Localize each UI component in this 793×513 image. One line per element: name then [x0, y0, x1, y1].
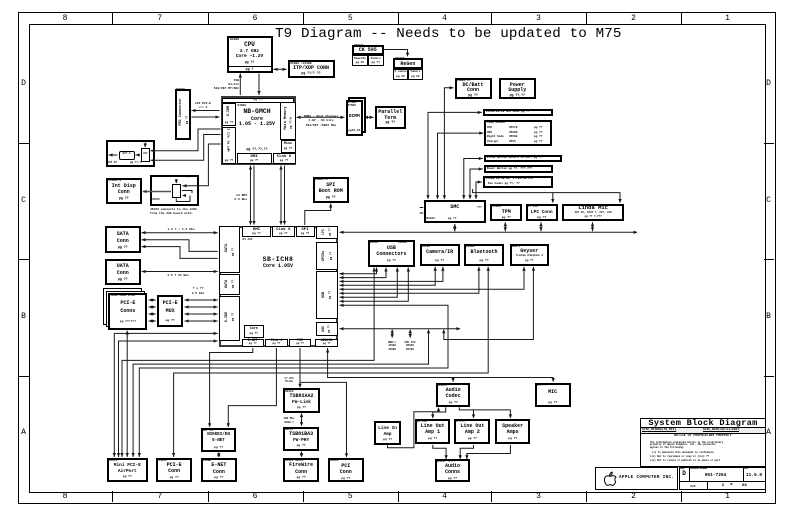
SB UATA pg — [231, 280, 234, 288]
SB title — [248, 256, 308, 263]
ReGen U3400 box — [393, 58, 423, 69]
SB USB sub-box — [316, 271, 338, 320]
Fan conns line1 — [486, 177, 533, 180]
U7550 button text — [487, 156, 542, 159]
CPU U4400 box — [227, 36, 273, 73]
Codec pg — [436, 401, 470, 404]
ReGen refdes — [395, 58, 404, 61]
bundle wire USBconn to AirPort 3 — [122, 268, 374, 458]
SB LPC text — [322, 229, 326, 235]
SB SATA pg — [231, 248, 234, 256]
NB PCI-E sub-box — [222, 127, 236, 164]
wire SB SATA0 to SATA Conn — [142, 232, 218, 234]
PCI-E Conns back box 1 — [106, 291, 145, 328]
USB pin wire 1 to USB Connectors — [340, 268, 377, 274]
ReGen tuners text — [408, 70, 423, 73]
PCI-E Conns front box — [108, 293, 147, 330]
SB-ICH8 U4600 outer box — [219, 226, 339, 347]
USBconn pg — [368, 259, 416, 262]
U7550 button box — [484, 155, 562, 163]
Line In Amp box — [374, 421, 401, 445]
DIMM title — [346, 114, 364, 119]
IntDisp line1 — [106, 184, 142, 190]
PEG wire label — [192, 102, 214, 110]
TSB82AA2 FW-Link box — [283, 388, 320, 412]
SB GPIOs pg — [329, 251, 332, 259]
SB UATA sub-box — [219, 274, 241, 296]
NB Misc sub-box — [281, 140, 296, 153]
DIMM refdes2 — [348, 104, 356, 107]
Temp row2c — [534, 131, 542, 134]
PowerSupply line1 — [499, 83, 536, 89]
USBconn line2 — [368, 252, 416, 258]
ENETconn pg — [201, 476, 237, 479]
NB title — [231, 108, 283, 115]
CK505 tuners text — [368, 57, 384, 60]
CK505 refdes — [354, 45, 363, 48]
USBconn TL refdes — [370, 241, 378, 244]
AudioConns pg — [435, 477, 471, 480]
PEG pg — [185, 116, 188, 124]
SMC right label — [477, 207, 482, 210]
CPU bottom pg — [227, 68, 272, 72]
SB AHD sub-box — [316, 322, 338, 336]
NIKKEI E-NET PHY box — [201, 428, 237, 452]
FireWire Conn box — [283, 458, 319, 482]
Camera pg — [420, 259, 460, 262]
SMC left stub 2 — [420, 212, 424, 214]
ENETconn refdes — [203, 459, 211, 462]
Power button text — [487, 167, 532, 170]
CK505 Tuners sub-box — [368, 55, 384, 66]
SPIROM line1 — [313, 183, 350, 189]
IntDisp pg — [106, 197, 142, 201]
LPCconn pg — [526, 216, 558, 219]
TSB82 line1 — [283, 394, 320, 400]
SATAconn refdes — [107, 227, 126, 230]
TSB82 line2 — [283, 400, 320, 405]
LVDS chip loop wire — [176, 196, 190, 202]
Line Out Amp 1 box — [415, 419, 451, 445]
USBconn line1 — [368, 246, 416, 252]
wire CPU to ITP/XDP — [274, 68, 287, 70]
USB pin wire 2 to USB Connectors — [340, 268, 387, 278]
wire PEG to NB — [192, 116, 220, 118]
RGB chip label — [119, 153, 135, 156]
SB AZALIA text — [315, 339, 338, 343]
Temp row3b — [509, 135, 517, 138]
IntDisp line2 — [106, 190, 142, 196]
wire SB SATA2 to SATA Conn — [142, 247, 218, 259]
S400 label — [280, 417, 298, 425]
NB DMI sub-box — [237, 153, 272, 164]
wire RGB chip2 to chip1 — [136, 154, 141, 156]
Camera refdes — [422, 245, 430, 248]
SB ENET pg — [242, 343, 264, 346]
MIC pg — [535, 401, 571, 404]
LVDS TL label — [152, 176, 171, 179]
Fan Conns box — [483, 176, 553, 188]
NB CLnk0 text — [273, 155, 296, 160]
MIC box — [535, 383, 571, 407]
Codec line1 — [436, 388, 470, 394]
wire NB CLnk to SB CLnk b — [284, 166, 286, 225]
CPU speed — [227, 49, 272, 54]
LVDS TR label — [186, 176, 194, 179]
apple computer inc text — [619, 476, 674, 481]
ReGen conns sub-box — [393, 69, 408, 81]
bundle wire USBpin9 to AirPort 6 — [139, 305, 448, 457]
wire SMC to DC/Batt — [444, 88, 453, 199]
NB MainMemory vertical text — [283, 106, 287, 129]
sheet label — [709, 481, 713, 483]
SATAconn line1 — [105, 232, 141, 238]
PCIeConn2 pg — [156, 476, 192, 479]
wire NB to RGB lower — [151, 135, 221, 161]
KBD stub on AHD bus — [391, 330, 393, 338]
wire Amp1 to Audio Conns — [433, 445, 446, 459]
wire CPU to NB FSB up — [239, 74, 241, 96]
Linda title — [562, 205, 624, 211]
wire SB Clnk1 down to NIKKEI — [228, 348, 276, 427]
SB S-IDE pg — [231, 313, 234, 321]
SB Clnk1 pg — [265, 343, 287, 346]
wire CPU to NB FSB down — [258, 74, 260, 96]
SB Core pg — [244, 332, 264, 335]
PCIeConn2 line1 — [156, 463, 192, 469]
Camera title — [420, 250, 460, 256]
wire NB to PEG — [192, 110, 220, 112]
TPM title — [490, 210, 522, 216]
SB LPC sub-box — [316, 226, 338, 239]
Spk pg — [495, 437, 530, 440]
FSB label — [205, 79, 239, 92]
wire SMC to Fan conns — [476, 182, 482, 199]
Amp2 pg — [454, 437, 490, 440]
audio bus drop to MIC — [552, 378, 554, 382]
title block heading — [641, 419, 765, 429]
size value D — [680, 471, 688, 478]
SB PCI sub-box — [289, 339, 311, 347]
SPI Boot ROM U3800 box — [313, 177, 350, 203]
SB USB pg — [328, 291, 331, 299]
TPM refdes — [492, 205, 500, 208]
notice item2 — [650, 456, 709, 459]
NIKKEI line1 — [201, 433, 237, 438]
rev label — [744, 468, 749, 470]
title block sysc row — [641, 427, 765, 434]
sysc right — [703, 428, 739, 431]
notice item1 — [652, 452, 714, 455]
ITP title — [288, 66, 335, 72]
NB B-IDM sub-box — [222, 103, 236, 127]
Linda pg — [562, 216, 624, 219]
Geyser sub — [510, 255, 549, 258]
USB pin wire 5 to Geyser — [340, 267, 525, 290]
Linda sub — [562, 212, 624, 215]
PCIeConn2 refdes — [158, 459, 166, 462]
NIKKEI pg — [201, 446, 237, 449]
PCIeConns refdes — [111, 295, 135, 298]
wire SB PCI down to TSB82AA2 — [299, 348, 301, 387]
Temp row2b — [509, 131, 517, 134]
wire Conns-MUX 3 — [149, 313, 156, 315]
CPU title — [227, 42, 272, 49]
NB B-IDM vertical text — [227, 106, 231, 117]
SB DMI text — [242, 228, 272, 233]
notice item3 — [650, 460, 720, 463]
Temp row4 — [487, 140, 499, 143]
PCI Conn box — [328, 458, 364, 482]
of label — [730, 484, 733, 487]
NB core — [231, 117, 283, 123]
RGB TL label — [108, 141, 120, 144]
FWconn line1 — [283, 463, 319, 469]
Temp row2 — [487, 131, 492, 134]
Int Disp Conn J5100 box — [106, 178, 142, 204]
Temp row4b — [509, 140, 516, 143]
SB DMI pg — [242, 232, 272, 235]
NB CLnk0 sub-box — [273, 153, 296, 164]
wire NB CLnk to SB CLnk a — [280, 166, 282, 225]
ITP refdes — [290, 62, 312, 65]
RGB chip2 label — [141, 153, 150, 156]
AirPort line2 — [107, 469, 148, 474]
CK505 title — [352, 48, 384, 54]
NB Main Memory sub-box — [280, 102, 296, 140]
Linda Mic to LPC bus — [592, 222, 594, 231]
NB PCIE label1 — [227, 128, 230, 137]
wire NB to RGB upper — [151, 129, 221, 151]
CK 505 U3300 box — [352, 45, 384, 56]
wire NB DMI to SB DMI b — [253, 166, 255, 225]
scale label — [680, 481, 686, 483]
wire Speaker Amps to Audio Conns — [467, 445, 511, 459]
FRC label — [402, 341, 418, 352]
ReGen tuners pg — [408, 75, 423, 78]
Mini PCI-E AirPort box — [107, 458, 148, 483]
LPC bus wire — [340, 231, 638, 233]
SPIROM refdes — [315, 178, 328, 181]
wire codec branch to Speaker Amps — [474, 410, 511, 418]
Amp1 line2 — [415, 430, 451, 436]
USB pin wire 8 to USB Connectors — [340, 268, 409, 302]
ReGen title — [393, 62, 423, 68]
bundle wire AHDbus to AirPort 5 — [133, 330, 428, 457]
wire NB DMI to SB DMI a — [250, 166, 252, 225]
ENETconn line2 — [201, 470, 237, 476]
UATA wire label — [160, 274, 196, 277]
Bluetooth U4100 box — [464, 244, 504, 267]
Temp row4c — [534, 140, 542, 143]
LineIn line1 — [374, 426, 401, 431]
CK505 poweron text — [352, 57, 368, 60]
SMC refdes — [427, 217, 435, 220]
wire Conns-MUX 1 — [149, 299, 156, 301]
wire SMC to Power button — [470, 169, 483, 199]
UATAconn line2 — [105, 271, 141, 277]
Spk line1 — [495, 424, 530, 430]
Codec line2 — [436, 394, 470, 400]
Amp1 pg — [415, 437, 451, 440]
wire NIKKEI to E-NET Conn — [218, 453, 220, 457]
CPU pg — [227, 61, 272, 65]
wire MUX-SB 1 — [185, 299, 218, 301]
AudioConns line2 — [435, 470, 471, 476]
PCI-E MUX box — [157, 295, 184, 327]
Temp row1c — [534, 126, 542, 129]
TSB81 refdes — [285, 428, 293, 431]
SB GPIOs text — [321, 250, 325, 261]
ENETconn line1 — [201, 463, 237, 469]
SB SATA sub-box — [219, 226, 241, 273]
SB PCI pg — [289, 343, 311, 346]
USB pin wire 3 to Camera/IR — [340, 267, 443, 282]
UATAconn pg — [105, 278, 141, 282]
wire Conns-MUX 2 — [149, 306, 156, 308]
LPC Conn to LPC bus — [540, 222, 542, 231]
bundle wire SB to AirPort 1 — [114, 333, 217, 457]
BT pg — [464, 259, 504, 262]
NB top strip pg — [222, 98, 294, 101]
wire Line In Amp to codec — [388, 408, 439, 448]
TPM to LPC bus — [504, 222, 506, 231]
NB top pg strip — [222, 98, 294, 103]
Temp row1b — [509, 126, 517, 129]
UATAconn refdes — [107, 260, 115, 263]
wire SMC to ALS — [428, 112, 482, 198]
BT refdes — [466, 245, 474, 248]
SATAconn line2 — [105, 239, 141, 245]
SMC to LPC bus — [454, 224, 456, 231]
wire SB ENET down to NIKKEI — [210, 348, 253, 427]
NB refdes — [238, 104, 246, 107]
SB CLnk0 pg — [272, 232, 295, 235]
SB AZALIA pg — [315, 343, 338, 346]
size label — [680, 468, 685, 470]
Geyser U4900 box — [510, 244, 549, 267]
PCI-E Conn bottom box — [156, 458, 192, 483]
ReGen conns text — [393, 70, 408, 73]
Apple logo — [603, 471, 617, 487]
Amp2 refdes — [456, 420, 466, 423]
Spk refdes — [497, 420, 514, 423]
NB DMI text — [237, 155, 272, 160]
AirPort pg — [107, 475, 148, 478]
DIMM back box — [348, 97, 366, 133]
NB CLnk0 pg — [273, 159, 296, 162]
branch into LPC Conn top — [552, 193, 554, 203]
NIKKEI line2 — [201, 439, 237, 444]
wire Geyser pin2 to AHD bus — [444, 267, 534, 340]
LVDS U5100 box — [150, 175, 199, 206]
SB LPC pg — [329, 228, 332, 236]
USBconn TR refdes — [398, 241, 406, 244]
SB refdes — [243, 238, 253, 241]
DCBatt line2 — [455, 88, 492, 94]
SB Clnk1 sub-box — [265, 339, 287, 347]
wire MUX-SB 2 — [185, 306, 218, 308]
SMC U5500 box — [424, 200, 486, 223]
bundle wire Bluetooth to PCI-E Conn — [174, 267, 489, 457]
title block outer box — [640, 418, 766, 468]
Temp Sensor box — [484, 120, 552, 146]
SATA Conn box — [105, 226, 141, 253]
wire SMC to Temp — [438, 133, 484, 199]
NB-GMCH U4500 outer box — [221, 96, 296, 165]
Fan conns line2 — [488, 182, 520, 185]
PCIeConns line1 — [108, 301, 147, 307]
PEG vertical text — [179, 98, 183, 125]
PCIconn line2 — [328, 470, 364, 476]
ParTerm line2 — [375, 116, 407, 122]
USB pin wire 7 to USB Connectors — [340, 268, 398, 298]
PCIeConns pg — [108, 320, 147, 323]
AZALIA wire to audio bus — [328, 348, 554, 378]
Audio Codec box — [436, 383, 470, 407]
rev value — [743, 473, 765, 478]
SB AHD pg — [329, 325, 332, 333]
LPCconn title — [526, 210, 558, 215]
BT title — [464, 250, 504, 256]
drawing number label — [690, 468, 707, 470]
arrow into RGB chip2 top — [144, 143, 146, 148]
NB PCIE pg — [222, 159, 236, 162]
wire SB UATA to UATA Conn — [142, 271, 218, 273]
DCBatt line1 — [455, 83, 492, 89]
SB SPI text — [296, 228, 315, 233]
ALS Conn box — [483, 109, 553, 117]
LVDS caption — [150, 208, 197, 217]
title text — [275, 26, 622, 42]
UATAconn line1 — [105, 264, 141, 270]
MIC refdes — [537, 384, 547, 387]
ReGen conns pg — [393, 75, 408, 78]
SMC left stub 1 — [420, 207, 424, 209]
LineIn line2 — [374, 432, 401, 437]
Power button box — [484, 165, 553, 173]
FWconn pg — [283, 476, 319, 479]
ParTerm line1 — [375, 110, 407, 116]
DIMM front box — [346, 100, 364, 136]
notice para — [650, 442, 723, 451]
TPM U5600 box — [490, 204, 522, 222]
RGB TR label — [138, 141, 144, 144]
CK505 PowerOn sub-box — [352, 55, 368, 66]
AudioConns line1 — [435, 464, 471, 470]
PLink label — [281, 377, 297, 385]
CPU core voltage — [227, 54, 272, 59]
TPM pg — [490, 216, 522, 219]
CK505 tuners pg — [368, 61, 384, 64]
wire NB MainMemory to DIMM — [297, 116, 345, 118]
SB GPIOs sub-box — [316, 242, 338, 271]
SB AZALIA sub-box — [315, 339, 338, 347]
Parallel Term box — [375, 106, 407, 129]
DMI wire label — [228, 194, 247, 203]
SB DMI sub-box — [242, 226, 272, 237]
NB Misc pg — [281, 147, 296, 150]
sheet value — [708, 484, 738, 489]
arrow into LVDS chip top — [175, 179, 177, 183]
LPCconn refdes — [528, 205, 538, 208]
LPC Conn box — [526, 204, 558, 222]
IntDisp refdes — [108, 179, 121, 182]
title block lower grid — [679, 467, 766, 490]
PCIconn pg — [328, 477, 364, 480]
NB pg list — [231, 148, 283, 152]
Geyser pg — [510, 259, 549, 262]
